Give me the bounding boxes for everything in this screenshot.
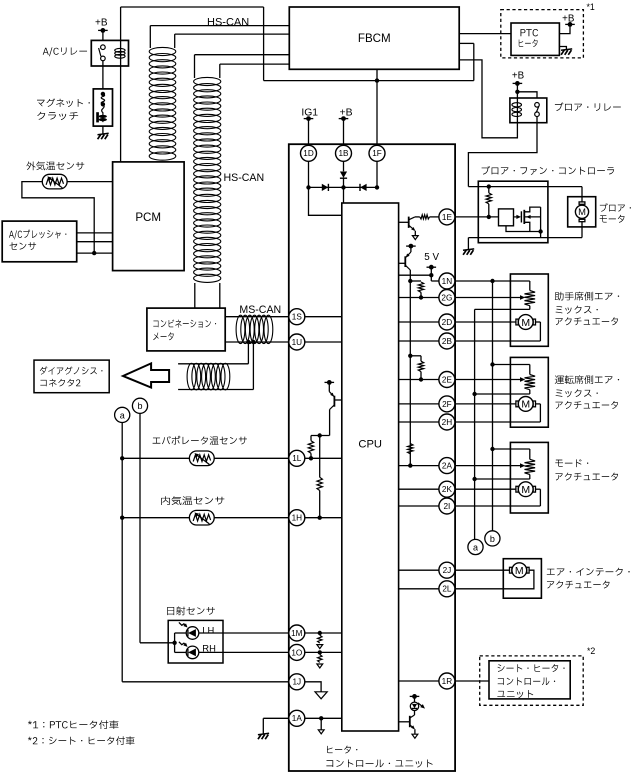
wire 2K to motor3	[455, 488, 516, 490]
twisted pair HS-CAN1 coil	[149, 47, 176, 55]
pin 2G	[439, 290, 455, 306]
MOSFET drain stub	[524, 207, 540, 212]
wire PTC +B	[559, 24, 570, 33]
wire +B to 1B	[343, 119, 345, 146]
wire LH to 1M	[199, 632, 289, 634]
resistor R1 on 1E line	[415, 216, 420, 218]
wire 2D to motor1	[455, 321, 516, 323]
label モード・アクチュエータ	[555, 459, 588, 467]
wire LH anode	[175, 632, 187, 634]
transistor Q3 collector	[330, 405, 335, 410]
wire 2L to intake motor	[455, 570, 534, 589]
pin 1L	[289, 450, 305, 466]
pin 1O	[289, 644, 305, 660]
wire Q1 emitter down	[414, 231, 416, 236]
wire rail to motor	[581, 187, 583, 202]
resistor R4 pullup 2A	[408, 444, 413, 454]
label A/Cリレー	[43, 47, 87, 56]
wire R5 to 1L line	[310, 453, 312, 458]
pin 1S	[289, 309, 305, 325]
wire diag tap down 2	[252, 342, 254, 390]
pin 1A	[289, 710, 305, 726]
label 助手席側エア・ミックス・アクチュエータ	[555, 292, 619, 301]
node a left	[115, 407, 130, 422]
wire 5V to 1N	[431, 280, 439, 282]
arrow to diagnosis connector	[123, 363, 169, 387]
pin 2A	[439, 458, 455, 474]
node a right	[468, 539, 483, 554]
junction pullup 1H	[318, 433, 322, 437]
wire PTC ground	[559, 47, 566, 50]
module PCM box	[113, 162, 185, 271]
photodiode RH	[186, 646, 199, 659]
wire HS-CAN2 to meter left	[194, 283, 196, 308]
module PTCヒータ box	[511, 23, 559, 55]
label マグネット・クラッチ	[37, 98, 90, 107]
diode D1 on 1B line	[340, 172, 347, 178]
wire b-line vertical	[139, 413, 141, 642]
transistor Q5 MOSFET gate bar	[520, 211, 522, 222]
pin 2K	[439, 481, 455, 497]
wire 1A ground drop	[262, 718, 264, 733]
wire motor to ground rail	[581, 222, 583, 238]
svg-text:b: b	[490, 534, 495, 544]
wire 1J to triangle	[305, 682, 321, 692]
wire 1B diode to junction	[343, 178, 345, 187]
svg-text:1B: 1B	[338, 149, 349, 158]
wire b-line to sun sensor	[140, 642, 175, 644]
relay blower contact arm	[536, 106, 539, 112]
svg-text:+B: +B	[95, 17, 108, 28]
transistor Q4 collector	[410, 715, 415, 718]
svg-text:2G: 2G	[441, 293, 452, 302]
wire RH to 1O	[199, 651, 289, 653]
wire 2K stub	[399, 488, 439, 490]
svg-text:*2: *2	[587, 646, 595, 656]
wire 1B node to CPU top	[343, 187, 345, 203]
svg-text:M: M	[521, 317, 530, 329]
label 運転席側エア・ミックス・アクチュエータ	[555, 375, 619, 384]
wire 5V to CPU	[399, 274, 432, 276]
wire ambient sensor right	[67, 181, 113, 183]
wire diag tap down 1	[247, 342, 249, 364]
junction a interior	[120, 516, 124, 520]
wire driver ground	[506, 226, 541, 232]
junction MOSFET source	[538, 229, 542, 233]
label PTCヒータ	[520, 29, 538, 36]
wire interior sensor left	[122, 517, 189, 519]
junction pullup 2G	[408, 279, 412, 283]
wire R6 top	[319, 436, 321, 478]
node b right	[485, 531, 500, 546]
wire Q2 output vertical	[409, 270, 411, 466]
svg-text:2B: 2B	[442, 337, 453, 346]
transistor Q2 base bar	[404, 256, 406, 267]
wire ambient sensor ground loop	[22, 182, 94, 254]
magnet clutch spring	[101, 94, 104, 104]
signal ground Q4	[412, 734, 418, 738]
svg-text:*1: *1	[587, 2, 595, 12]
wire FBCM right loop	[473, 43, 475, 80]
wire 2G stub	[399, 297, 439, 299]
junction R3 2E	[419, 377, 423, 381]
pin 1J	[289, 674, 305, 690]
wire 1S stub	[305, 316, 342, 318]
wire 1A triangle drop	[320, 718, 322, 730]
wire 1D down	[308, 162, 310, 188]
supply tick LED	[410, 695, 420, 697]
transistor Q4 base bar	[409, 716, 411, 727]
relay blower contact upper	[535, 103, 540, 108]
svg-text:HS-CAN: HS-CAN	[207, 16, 249, 28]
supply tick B+ internal	[406, 245, 416, 247]
wire 2H to motor2	[455, 421, 541, 423]
signal ground Q1	[412, 236, 418, 240]
wire IG1 to 1D	[308, 119, 310, 146]
signal ground 1M	[317, 645, 323, 649]
svg-text:+B: +B	[512, 71, 525, 82]
actuator 助手席側 box+pot+motor	[510, 274, 548, 346]
svg-text:1R: 1R	[442, 677, 453, 686]
svg-text:2J: 2J	[443, 566, 452, 575]
sensor 外気温センサ thermistor	[42, 174, 67, 189]
label ブロア・リレー	[555, 102, 621, 111]
node b left	[132, 398, 147, 413]
junction b-feed 2	[490, 362, 494, 366]
wire Q3 base	[334, 399, 341, 401]
pin 2F	[439, 396, 455, 412]
junction b-feed 3	[490, 447, 494, 451]
pin 2H	[439, 414, 455, 430]
wire HS-CAN2 low	[220, 63, 289, 65]
wire HS-CAN2 to meter right	[219, 283, 221, 308]
junction pressure sensor ground	[92, 251, 96, 255]
wire 2E arrow line	[455, 379, 521, 381]
svg-text:2L: 2L	[442, 585, 452, 594]
wire a-line to 1J	[122, 681, 289, 683]
supply tick +B relay	[98, 29, 108, 31]
junction R5 1L	[309, 456, 313, 460]
svg-text:a: a	[473, 542, 478, 552]
wire B+ junction line	[264, 80, 474, 82]
wire R3 to 2E line	[420, 372, 422, 380]
junction a pot3	[472, 477, 476, 481]
sensor エバポレータ温センサ thermistor	[189, 451, 214, 466]
junction 1A	[319, 716, 323, 720]
motor air intake	[510, 567, 512, 573]
wire clutch to ground	[102, 126, 104, 134]
module コンビネーション・メータ box	[147, 308, 225, 351]
label ブロア・モータ	[600, 203, 631, 212]
pin 2B	[439, 333, 455, 349]
label エア・インテーク・アクチュエータ	[547, 568, 630, 576]
relay A/C contact upper	[101, 45, 106, 50]
MOSFET right vertical	[540, 207, 542, 238]
pin 2E	[439, 372, 455, 388]
svg-text:2H: 2H	[442, 418, 453, 427]
svg-text:2F: 2F	[442, 400, 452, 409]
svg-text:2A: 2A	[442, 462, 453, 471]
wire 2J to intake motor	[455, 569, 510, 571]
junction a evap	[120, 456, 124, 460]
wire 1A stub	[305, 717, 342, 719]
footnote *2	[28, 736, 135, 745]
ground magnet clutch	[98, 133, 109, 134]
MOSFET source stub	[524, 216, 540, 218]
svg-text:CPU: CPU	[358, 439, 382, 451]
transistor Q1 collector	[409, 217, 415, 220]
twisted pair diagnosis coil	[187, 363, 196, 390]
wire HS-CAN1 high	[150, 25, 289, 27]
wire 1B down	[343, 162, 345, 172]
svg-text:M: M	[578, 206, 586, 217]
junction 1B node	[341, 185, 345, 189]
junction R4 2A	[408, 463, 412, 467]
supply tick +B PTC	[565, 23, 575, 25]
actuator 運転席側 box+pot+motor	[510, 357, 548, 427]
junction a pot2	[472, 392, 476, 396]
wire 1E to driver	[455, 216, 499, 218]
module blower motor box	[568, 197, 596, 227]
wire 2B stub	[399, 340, 439, 342]
resistor R2 pullup 2G	[418, 282, 423, 292]
svg-text:+B: +B	[340, 107, 353, 118]
signal ground 1A	[318, 730, 324, 734]
svg-text:1J: 1J	[292, 678, 301, 687]
label ヒータ・コントロール・ユニット	[327, 746, 357, 754]
wire LED to Q4	[414, 710, 416, 715]
wire blower relay to controller	[468, 117, 537, 187]
module FBCM box	[289, 7, 459, 69]
wire 1R to seat heater	[455, 680, 489, 682]
wire 2L stub	[399, 588, 439, 590]
wire b-line right vertical	[492, 281, 494, 531]
wire pressure sensor 3	[77, 252, 113, 254]
module seat heater dashed box	[480, 656, 584, 705]
module air intake box	[503, 559, 541, 599]
wire HS-CAN2 high	[195, 54, 290, 56]
junction 5V CPU	[429, 273, 433, 277]
pin 1E	[439, 209, 455, 225]
resistor R3 pullup 2E	[418, 361, 423, 371]
wire tick to LED	[414, 696, 416, 702]
svg-text:2K: 2K	[442, 485, 453, 494]
junction rail resistor	[487, 184, 491, 188]
wire HS-CAN1 low	[175, 33, 290, 35]
driver box	[499, 209, 514, 226]
wire FBCM to PTC	[459, 33, 511, 35]
wire FBCM to blower relay coil	[459, 60, 517, 138]
relay blower contact lower	[535, 112, 540, 117]
junction R6 1H	[318, 516, 322, 520]
junction b-feed 1	[490, 279, 494, 283]
wire R1 to 1E	[430, 216, 439, 218]
pin 2J	[439, 562, 455, 578]
wire Q1 base	[399, 221, 409, 223]
module blower fan controller box	[478, 181, 548, 243]
wire 1O stub	[305, 651, 342, 653]
wire pressure sensor 1	[77, 232, 113, 234]
svg-text:2E: 2E	[442, 375, 453, 384]
wire 1A left	[263, 717, 289, 719]
transistor Q3 base bar	[333, 396, 335, 407]
svg-text:2D: 2D	[442, 318, 453, 327]
supply tick 5V	[427, 266, 437, 268]
wire 5V down	[430, 267, 432, 281]
wire +B to A/C relay	[102, 30, 104, 40]
relay A/C contact arm	[99, 48, 101, 56]
svg-text:b: b	[137, 401, 142, 411]
supply tick IG1	[304, 118, 314, 120]
svg-text:M: M	[521, 484, 530, 496]
label A/Cプレッシャ・センサ	[9, 230, 66, 240]
label ブロア・ファン・コントローラ	[482, 166, 615, 175]
magnet clutch plate wire	[102, 104, 105, 122]
transistor Q2 collector	[405, 265, 410, 270]
label ダイアグノシス・コネクタ2	[40, 366, 103, 374]
wire +B to blower relay	[516, 83, 518, 98]
pin 1B	[336, 145, 352, 161]
wire 2G arrow line	[455, 297, 521, 299]
wire evap sensor right	[214, 457, 289, 459]
svg-text:1D: 1D	[303, 149, 314, 158]
module seat heater unit box	[489, 661, 570, 699]
junction 1M	[318, 631, 322, 635]
wire controller power rail	[468, 186, 582, 188]
junction diag tap 2	[251, 340, 255, 344]
pin 1U	[289, 334, 305, 350]
svg-text:PCM: PCM	[135, 211, 161, 224]
wire pullup 2E branch	[410, 355, 421, 357]
pin 1D	[301, 145, 317, 161]
pin 2I	[439, 498, 455, 514]
wire pullup 2G branch	[410, 280, 421, 282]
wire controller ground rail	[468, 237, 582, 239]
relay A/C contact lower	[101, 56, 106, 61]
svg-text:5 V: 5 V	[424, 252, 439, 263]
ground blower controller	[463, 249, 474, 250]
magnet clutch junction upper	[101, 92, 105, 96]
module PTC dashed box	[501, 10, 584, 58]
svg-text:1H: 1H	[292, 514, 303, 523]
supply tick +B 1B	[339, 118, 349, 120]
ground 1A	[258, 733, 269, 734]
svg-text:MS-CAN: MS-CAN	[239, 304, 281, 316]
transistor Q3 emitter	[329, 392, 334, 397]
junction blower relay +B	[515, 90, 519, 94]
junction 1F diode line	[375, 185, 379, 189]
relay A/C coil wire	[120, 7, 122, 162]
wire Q3 output	[329, 410, 331, 436]
wire ground drop	[467, 238, 469, 250]
svg-text:LH: LH	[202, 624, 214, 635]
wire 2H stub	[399, 421, 439, 423]
wire 1U stub	[305, 341, 342, 343]
ground PTC	[561, 49, 572, 50]
label エバポレータ温センサ	[153, 436, 247, 445]
signal ground 1J	[315, 692, 327, 699]
wire R6 to 1H line	[319, 491, 321, 518]
pin 1M	[289, 625, 305, 641]
wire RH anode	[175, 651, 187, 653]
pin 2D	[439, 314, 455, 330]
pin 1F	[369, 145, 385, 161]
label コンビネーション・メータ	[153, 319, 216, 327]
wire interior sensor right	[214, 517, 289, 519]
junction R2 2G	[419, 295, 423, 299]
supply tick +B blower relay	[513, 82, 523, 84]
wire tick to Q2	[410, 246, 412, 252]
svg-text:1S: 1S	[292, 313, 303, 322]
wire 2I to motor3	[455, 505, 541, 507]
twisted pair MS-CAN coil	[236, 315, 245, 343]
svg-text:1O: 1O	[291, 648, 302, 657]
pin 1N	[439, 273, 455, 289]
supply tick B+ sensors	[325, 381, 335, 383]
junction sun sensor b	[172, 641, 176, 645]
svg-text:M: M	[515, 565, 524, 577]
resistor R5 pullup 1L	[308, 441, 313, 454]
wire relay to magnet clutch	[102, 61, 104, 89]
LED D4	[410, 702, 418, 710]
label 内気温センサ	[161, 496, 224, 505]
footnote *1	[28, 720, 119, 729]
transistor Q1 base bar	[408, 217, 410, 228]
wire B+ top horizontal	[121, 6, 264, 8]
wire 2F stub	[399, 403, 439, 405]
wire pressure sensor 2	[77, 241, 113, 243]
svg-text:1N: 1N	[442, 277, 453, 286]
wire 2J stub	[399, 569, 439, 571]
wire 2I stub	[399, 505, 439, 507]
magnet clutch junction lower	[101, 102, 105, 106]
label シート・ヒータ・コントロール・ユニット	[498, 664, 565, 672]
relay A/C box	[91, 40, 128, 66]
motor blower	[579, 202, 585, 204]
wire 1R stub	[399, 680, 439, 682]
resistor R7 1M pulldown	[318, 635, 322, 643]
resistor R8 1O pulldown	[318, 655, 322, 663]
wire MS-CAN low	[225, 341, 289, 343]
module heater control unit box	[289, 144, 455, 771]
diode D3 1F to 1B	[360, 184, 366, 191]
wire Q4 emitter down	[414, 729, 416, 734]
pin 1R	[439, 673, 455, 689]
wire a-line vertical	[121, 423, 123, 682]
wire evap sensor left	[122, 457, 189, 459]
photodiode LH	[186, 627, 199, 640]
wire R5 top	[310, 436, 312, 441]
wire 2F to motor2	[455, 403, 516, 405]
wire R2 to 2G line	[420, 292, 422, 297]
label 外気温センサ	[26, 161, 84, 170]
wire Q2 base	[399, 262, 406, 264]
transistor Q2 emitter	[406, 252, 411, 257]
pin 2L	[439, 581, 455, 597]
svg-text:1L: 1L	[292, 454, 302, 463]
svg-text:2I: 2I	[443, 502, 450, 511]
module A/Cプレッシャ・センサ box	[2, 221, 77, 262]
svg-text:FBCM: FBCM	[358, 32, 391, 45]
wire 2E stub	[399, 379, 439, 381]
junction pullup 2E	[408, 354, 412, 358]
wire a-line right vertical	[474, 309, 476, 539]
wire sun sensor anode vertical	[174, 633, 176, 652]
wire B+ right vertical	[263, 7, 265, 81]
svg-text:1M: 1M	[291, 629, 303, 638]
svg-text:1F: 1F	[372, 149, 382, 158]
wire FBCM bottom to 1F	[376, 69, 378, 145]
